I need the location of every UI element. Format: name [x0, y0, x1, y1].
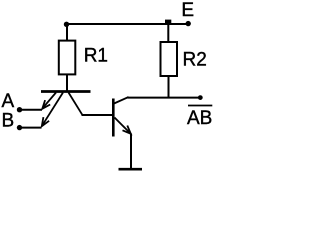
- svg-text:R2: R2: [183, 49, 207, 70]
- transistor V2 emitter shaft: [115, 118, 131, 134]
- svg-text:R1: R1: [84, 46, 108, 67]
- wire R1 bottom lead: [66, 74, 68, 92]
- resistor R1: [59, 41, 76, 75]
- transistor V1 emitter 1 arrowhead: [42, 100, 50, 109]
- node junction square over R2: [165, 20, 171, 25]
- wire top supply rail: [67, 23, 191, 25]
- node junction dot over R1: [64, 22, 69, 27]
- transistor V2 emitter arrowhead: [123, 126, 131, 134]
- transistor V1 emitter 2 shaft: [42, 93, 63, 126]
- resistor R2: [161, 42, 178, 76]
- svg-text:AB: AB: [187, 108, 212, 129]
- node input terminal A dot: [17, 107, 22, 112]
- svg-text:A: A: [2, 91, 15, 112]
- wire input A: [20, 109, 43, 111]
- wire V1 collector to V2 base: [82, 114, 114, 116]
- svg-text:B: B: [2, 111, 15, 132]
- wire R1 top lead: [66, 24, 68, 41]
- label AB output with overline: [188, 105, 212, 107]
- node input terminal B dot: [17, 125, 22, 130]
- node output terminal dot: [198, 95, 203, 100]
- transistor V1 base bar (multi-emitter): [41, 90, 91, 93]
- wire emitter to ground: [130, 134, 132, 170]
- transistor V1 emitter 1 shaft: [43, 93, 56, 109]
- node E supply terminal dot: [186, 21, 191, 26]
- transistor V1 emitter 2 arrowhead: [42, 117, 49, 126]
- wire R2 bottom lead: [168, 77, 170, 98]
- transistor V2 collector diagonal: [114, 97, 129, 104]
- wire input B: [20, 127, 42, 129]
- transistor V2 base bar: [112, 99, 115, 137]
- ground: [119, 168, 143, 171]
- transistor V1 collector diagonal: [69, 93, 83, 115]
- wire output to AB node: [128, 97, 201, 99]
- wire R2 top lead: [167, 24, 169, 42]
- svg-text:E: E: [181, 0, 194, 21]
